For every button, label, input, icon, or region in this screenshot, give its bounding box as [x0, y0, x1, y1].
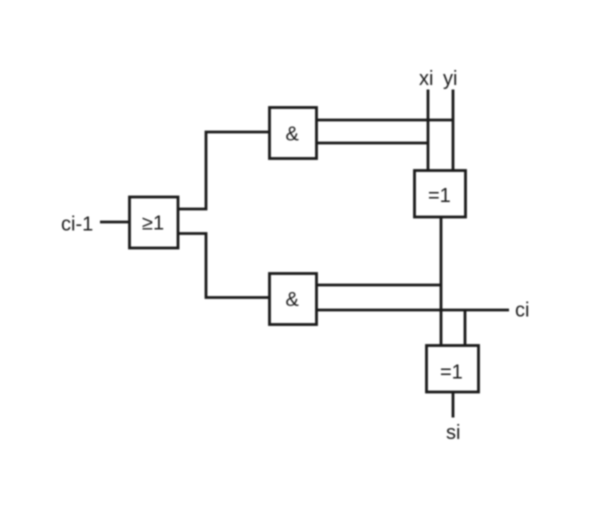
- svg-text:ci-1: ci-1: [61, 214, 93, 236]
- svg-text:&: &: [286, 289, 300, 311]
- svg-text:=1: =1: [428, 185, 451, 207]
- svg-text:≥1: ≥1: [142, 213, 164, 235]
- svg-text:yi: yi: [443, 68, 457, 90]
- svg-text:xi: xi: [419, 68, 433, 90]
- svg-text:=1: =1: [440, 362, 463, 384]
- svg-text:si: si: [446, 422, 460, 444]
- svg-text:&: &: [286, 124, 300, 146]
- svg-text:ci: ci: [515, 300, 529, 322]
